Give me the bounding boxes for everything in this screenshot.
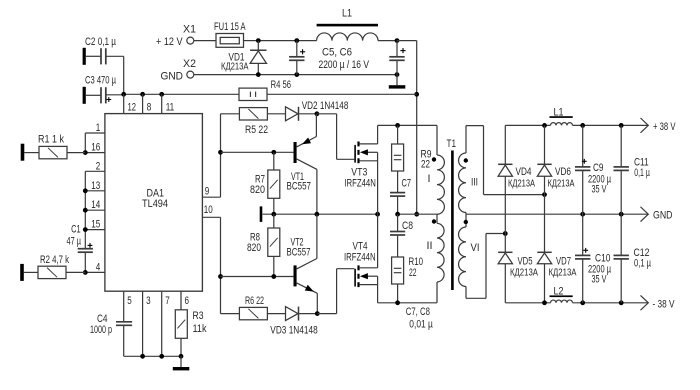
svg-text:VD3 1N4148: VD3 1N4148 bbox=[270, 324, 317, 336]
svg-text:GND: GND bbox=[161, 71, 184, 83]
svg-text:0,01 µ: 0,01 µ bbox=[409, 319, 433, 331]
svg-text:C8: C8 bbox=[402, 220, 413, 232]
svg-text:R3: R3 bbox=[193, 310, 204, 322]
svg-text:C9: C9 bbox=[593, 162, 604, 174]
svg-text:IRFZ44N: IRFZ44N bbox=[344, 177, 376, 189]
svg-text:IRFZ44N: IRFZ44N bbox=[344, 251, 376, 263]
svg-text:+ 38 V: + 38 V bbox=[653, 121, 676, 133]
svg-text:8: 8 bbox=[147, 102, 152, 114]
svg-text:820: 820 bbox=[247, 242, 261, 254]
svg-text:0,1 µ: 0,1 µ bbox=[634, 167, 650, 179]
svg-text:III: III bbox=[471, 177, 478, 189]
svg-text:15: 15 bbox=[91, 219, 100, 231]
svg-text:13: 13 bbox=[91, 180, 100, 192]
svg-text:КД213А: КД213А bbox=[510, 267, 538, 278]
svg-text:C5, C6: C5, C6 bbox=[322, 47, 352, 59]
svg-text:4: 4 bbox=[96, 261, 101, 273]
svg-text:2200 µ / 16 V: 2200 µ / 16 V bbox=[319, 59, 370, 71]
svg-text:L1: L1 bbox=[554, 106, 564, 118]
svg-text:10: 10 bbox=[204, 204, 213, 216]
svg-text:11: 11 bbox=[166, 102, 175, 114]
svg-text:12: 12 bbox=[128, 102, 137, 114]
svg-text:- 38 V: - 38 V bbox=[653, 298, 675, 310]
svg-text:22: 22 bbox=[409, 267, 417, 279]
svg-text:C2 0,1 µ: C2 0,1 µ bbox=[85, 36, 116, 48]
svg-text:R4 56: R4 56 bbox=[271, 79, 291, 91]
svg-text:16: 16 bbox=[91, 142, 100, 154]
svg-text:VD7: VD7 bbox=[556, 256, 571, 268]
svg-text:C1: C1 bbox=[71, 224, 81, 236]
svg-text:I: I bbox=[428, 173, 431, 185]
svg-text:35 V: 35 V bbox=[592, 184, 607, 196]
svg-text:T1: T1 bbox=[447, 138, 457, 150]
svg-text:C3 470 µ: C3 470 µ bbox=[85, 75, 116, 87]
svg-text:L1: L1 bbox=[342, 8, 352, 20]
svg-text:VD6: VD6 bbox=[555, 166, 571, 178]
svg-text:X2: X2 bbox=[183, 58, 196, 70]
svg-text:11k: 11k bbox=[193, 323, 207, 335]
svg-text:1: 1 bbox=[96, 122, 101, 134]
svg-text:TL494: TL494 bbox=[142, 198, 168, 210]
svg-text:BC557: BC557 bbox=[287, 181, 312, 193]
svg-text:BC557: BC557 bbox=[287, 247, 311, 259]
svg-text:C7: C7 bbox=[402, 178, 412, 190]
svg-text:7: 7 bbox=[165, 295, 170, 307]
svg-text:5: 5 bbox=[127, 295, 132, 307]
svg-text:9: 9 bbox=[205, 185, 210, 197]
svg-text:+ 12 V: + 12 V bbox=[156, 36, 183, 48]
svg-text:КД213А: КД213А bbox=[508, 179, 535, 190]
svg-text:R6 22: R6 22 bbox=[245, 295, 264, 307]
svg-text:35 V: 35 V bbox=[592, 274, 607, 286]
svg-text:1000 p: 1000 p bbox=[90, 324, 112, 336]
svg-text:14: 14 bbox=[91, 199, 100, 211]
svg-text:VI: VI bbox=[471, 242, 480, 254]
svg-text:3: 3 bbox=[146, 295, 151, 307]
svg-text:КД213А: КД213А bbox=[221, 62, 249, 73]
svg-text:C7, C8: C7, C8 bbox=[406, 306, 430, 318]
svg-text:R1 1 k: R1 1 k bbox=[38, 134, 64, 146]
svg-text:VD4: VD4 bbox=[516, 166, 532, 178]
svg-text:820: 820 bbox=[250, 184, 265, 196]
svg-text:FU1 15 A: FU1 15 A bbox=[214, 21, 246, 33]
svg-text:КД213А: КД213А bbox=[548, 179, 575, 190]
svg-text:VD5: VD5 bbox=[518, 256, 533, 268]
svg-text:R2 4,7 k: R2 4,7 k bbox=[40, 254, 69, 266]
svg-text:47 µ: 47 µ bbox=[67, 236, 82, 248]
svg-text:2: 2 bbox=[96, 160, 101, 172]
svg-text:КД213А: КД213А bbox=[549, 267, 577, 278]
svg-text:L2: L2 bbox=[554, 286, 564, 298]
svg-text:II: II bbox=[427, 240, 433, 252]
svg-text:6: 6 bbox=[185, 295, 190, 307]
svg-text:R5 22: R5 22 bbox=[245, 124, 268, 136]
svg-text:X1: X1 bbox=[183, 24, 196, 36]
svg-text:0,1 µ: 0,1 µ bbox=[634, 258, 651, 270]
svg-text:GND: GND bbox=[653, 210, 673, 222]
svg-text:22: 22 bbox=[421, 159, 430, 171]
svg-text:VD2 1N4148: VD2 1N4148 bbox=[302, 100, 349, 112]
